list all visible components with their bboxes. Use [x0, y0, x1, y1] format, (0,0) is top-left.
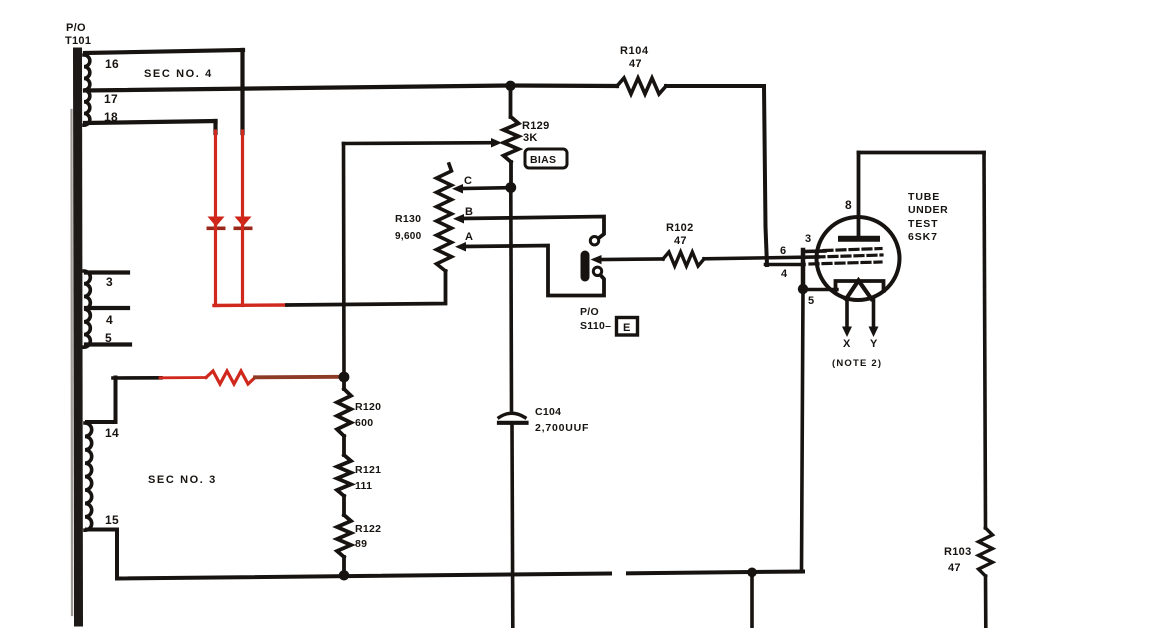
svg-text:X: X	[843, 338, 851, 350]
svg-text:A: A	[465, 231, 473, 243]
resistor R120 600	[337, 377, 351, 436]
wire red lead	[160, 376, 206, 379]
tube envelope circle	[817, 217, 900, 300]
svg-text:2,700UUF: 2,700UUF	[535, 422, 589, 434]
wire pin 5 to cathode	[803, 288, 837, 291]
resistor R129 3K (bias pot)	[504, 86, 519, 188]
wire terminal 18 to corner	[85, 121, 216, 123]
svg-text:14: 14	[105, 426, 119, 440]
node junction red line / R120 chain	[339, 372, 350, 383]
svg-text:Y: Y	[870, 338, 878, 350]
svg-text:111: 111	[355, 480, 372, 492]
wire terminal 14 up to resistor line	[87, 378, 116, 423]
wire top cap vertical	[857, 153, 861, 238]
transformer T101 winding SEC NO.3 coil 14-15	[85, 423, 92, 530]
wire terminal 4	[86, 306, 128, 310]
svg-text:5: 5	[808, 295, 814, 307]
svg-text:BIAS: BIAS	[530, 154, 556, 166]
switch S110-E lower contact	[593, 267, 601, 275]
svg-text:T101: T101	[65, 35, 91, 47]
svg-text:S110–: S110–	[580, 320, 611, 332]
svg-text:4: 4	[781, 268, 788, 280]
svg-text:R103: R103	[944, 546, 972, 558]
svg-text:16: 16	[105, 57, 119, 71]
svg-text:TUBE: TUBE	[908, 191, 940, 203]
resistor R103 47 zigzag	[979, 528, 993, 576]
wire terminal 16 to corner	[85, 50, 243, 53]
wire switch to R102	[600, 257, 663, 261]
svg-text:8: 8	[845, 198, 852, 212]
wire black continuation to R130 bottom	[287, 271, 446, 305]
wire tap B to switch upper contact	[462, 217, 604, 238]
R130 tap A arrow	[455, 242, 466, 252]
capacitor C104 2,700UUF	[499, 413, 527, 423]
switch S110-E upper contact	[590, 237, 598, 245]
resistor R121 111	[337, 436, 351, 496]
BIAS callout box	[525, 149, 567, 168]
svg-text:C104: C104	[535, 406, 561, 418]
svg-text:89: 89	[355, 538, 367, 550]
node junction 17-wire / R129	[505, 81, 515, 91]
svg-text:B: B	[465, 206, 473, 218]
wire tap C to junction	[461, 186, 509, 190]
node junction pin 5	[798, 284, 808, 294]
diode (red, left)	[207, 217, 226, 231]
svg-text:3: 3	[106, 275, 113, 289]
svg-text:R102: R102	[666, 222, 694, 234]
wire tap A to switch lower contact	[464, 246, 604, 296]
wire pin 5 vertical down	[802, 290, 804, 572]
transformer T101 winding 3-4-5 coil	[84, 271, 90, 347]
transformer T101 winding SEC NO.4 (coil 16-17-18)	[84, 55, 90, 125]
wire dark red lead to junction	[255, 375, 339, 379]
svg-text:18: 18	[104, 110, 118, 124]
svg-text:P/O: P/O	[66, 22, 86, 34]
wire C104 lower vertical to bottom edge	[510, 425, 514, 628]
wire R103 to bottom edge	[984, 576, 988, 628]
wire gap artifact in bottom bus	[612, 568, 626, 577]
wire black left part of red resistor line	[113, 376, 161, 380]
svg-text:(NOTE 2): (NOTE 2)	[832, 358, 882, 369]
svg-text:600: 600	[355, 417, 373, 429]
wire vertical down to tube pin 4	[764, 86, 767, 265]
wire right vertical down to R103	[984, 153, 986, 529]
tube heater	[846, 281, 872, 300]
svg-text:SEC NO. 4: SEC NO. 4	[144, 68, 213, 80]
svg-text:R129: R129	[522, 120, 550, 132]
svg-text:4: 4	[106, 313, 113, 327]
switch arm arrow	[591, 255, 602, 264]
wire terminal 3	[86, 270, 128, 274]
wire wiper to left vertical	[344, 141, 493, 145]
wire red vertical from 16 branch	[241, 131, 244, 306]
resistor R130 9,600 (pot) zigzag	[437, 164, 452, 271]
tube grid 2 (dashed)	[816, 255, 882, 257]
wire vertical from wiper down to R120 junction	[342, 144, 346, 378]
wire C104 branch vertical upper	[509, 188, 513, 411]
switch S110-E pole bar	[581, 251, 590, 282]
wire terminal 17 long bus to R104	[85, 86, 617, 91]
wire terminal 15 down to bottom bus	[87, 530, 117, 579]
svg-text:R104: R104	[620, 45, 649, 57]
svg-text:E: E	[623, 322, 631, 334]
wire stub down from bus	[750, 572, 754, 628]
transformer T101 core	[72, 52, 79, 622]
S110 E callout box	[617, 318, 638, 336]
resistor (red, unlabeled) zigzag	[206, 371, 255, 384]
svg-text:6: 6	[780, 245, 786, 257]
svg-text:UNDER: UNDER	[908, 204, 948, 216]
arrowhead Y	[869, 327, 879, 338]
wire top horizontal to right bus	[859, 151, 985, 155]
resistor R102 47 zigzag	[663, 252, 704, 266]
tube grid 1 (dashed)	[824, 249, 881, 251]
svg-text:17: 17	[104, 92, 118, 106]
tube cathode bracket	[836, 281, 884, 291]
wire bottom bus	[117, 572, 803, 579]
svg-text:P/O: P/O	[580, 306, 599, 318]
svg-text:47: 47	[674, 235, 687, 247]
diode (red, right)	[234, 217, 253, 231]
svg-text:3K: 3K	[523, 132, 538, 144]
svg-text:47: 47	[629, 58, 642, 70]
wire 18 branch vertical (black top part)	[213, 121, 217, 133]
node junction R122 bottom bus	[339, 570, 349, 580]
wire heater lead X	[845, 299, 849, 329]
svg-text:5: 5	[105, 331, 112, 345]
wire 16 branch vertical (black top part)	[240, 50, 244, 133]
svg-text:R122: R122	[355, 523, 381, 535]
svg-text:47: 47	[948, 562, 961, 574]
wire red vertical from 18 branch	[214, 131, 217, 306]
wire heater lead Y	[872, 299, 876, 329]
svg-text:9,600: 9,600	[395, 231, 422, 242]
svg-text:SEC NO. 3: SEC NO. 3	[148, 474, 217, 486]
tube grid 3 (dashed)	[810, 262, 881, 264]
R130 tap C arrow	[452, 184, 463, 194]
svg-text:R121: R121	[355, 464, 381, 476]
svg-text:6SK7: 6SK7	[908, 231, 938, 243]
svg-text:C: C	[464, 175, 472, 187]
svg-text:15: 15	[105, 513, 119, 527]
wire R102 to tube grid	[704, 257, 818, 259]
resistor R104 47 zigzag	[617, 78, 666, 94]
svg-text:TEST: TEST	[908, 218, 938, 230]
resistor R122 89	[337, 496, 351, 575]
wire R104 right to corner	[666, 84, 764, 88]
R129 wiper arrow	[491, 138, 502, 148]
wire red horizontal at bottom of diode branch	[214, 303, 287, 307]
svg-text:3: 3	[805, 233, 811, 245]
tube plate bar	[841, 236, 877, 242]
node junction R129 bottom / tap C / C104	[505, 182, 516, 193]
pin 3 tie bar	[801, 250, 806, 288]
R130 tap B arrow	[453, 214, 464, 224]
wire pin 4 horizontal	[766, 263, 805, 267]
wire terminal 5	[86, 342, 130, 346]
svg-text:R130: R130	[395, 213, 421, 225]
node junction bottom bus stub	[747, 568, 757, 578]
wire pin 3 stub	[803, 249, 825, 253]
arrowhead X	[842, 327, 852, 338]
svg-text:R120: R120	[355, 401, 381, 413]
